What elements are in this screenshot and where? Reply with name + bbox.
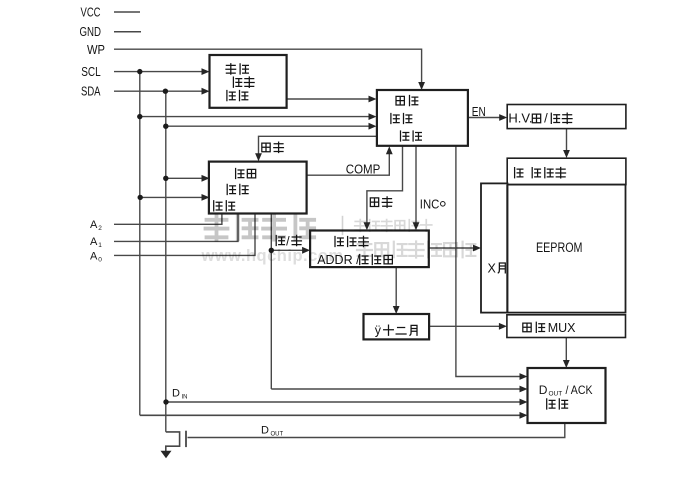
wire EN serial control to HV pump bbox=[468, 117, 501, 119]
svg-text:GND: GND bbox=[80, 25, 102, 39]
device address text bbox=[236, 168, 244, 178]
wire SCL branch to device address bbox=[140, 196, 203, 198]
svg-text:A: A bbox=[90, 251, 98, 263]
svg-text:H.V.: H.V. bbox=[508, 111, 532, 126]
serial mux text bbox=[523, 323, 531, 332]
svg-text:1: 1 bbox=[98, 242, 102, 249]
wire DIN to Dout/ACK bbox=[166, 401, 521, 403]
svg-text:OUT: OUT bbox=[271, 432, 284, 438]
Dout ACK logic box bbox=[528, 368, 606, 423]
serial MUX box bbox=[507, 315, 626, 338]
label load 1 bbox=[262, 143, 270, 152]
watermark bbox=[201, 216, 476, 265]
y dec text bbox=[384, 325, 394, 335]
wire A2 bbox=[114, 214, 222, 225]
svg-text:SCL: SCL bbox=[81, 65, 101, 79]
node SCL-serial junction bbox=[137, 114, 142, 119]
svg-text:X: X bbox=[488, 262, 497, 276]
transistor output MOSFET bbox=[166, 432, 180, 452]
wire serial control down to Dout/ACK bbox=[456, 146, 521, 377]
ground arrow bbox=[161, 451, 172, 459]
Y decoder box bbox=[364, 314, 430, 339]
wire GND stub bbox=[114, 31, 141, 33]
svg-text:EEPROM: EEPROM bbox=[536, 240, 583, 255]
svg-text:IN: IN bbox=[182, 395, 188, 401]
node SCL junction bbox=[137, 69, 142, 74]
wire WP to serial control top bbox=[114, 49, 422, 84]
svg-text:D: D bbox=[539, 383, 548, 397]
svg-text:/: / bbox=[544, 111, 548, 126]
node SCL-devaddr junction bbox=[138, 195, 143, 200]
wire SDA into start/stop bbox=[114, 90, 203, 92]
wire VCC stub bbox=[114, 11, 140, 13]
wire Y dec to serial mux bbox=[429, 325, 500, 327]
data recovery box bbox=[507, 158, 626, 184]
start stop text line1 bbox=[226, 64, 236, 74]
data word addr counter box bbox=[310, 231, 429, 268]
wire SCL branch to serial control bbox=[140, 116, 370, 118]
svg-text:SDA: SDA bbox=[81, 85, 101, 99]
wire data word addr to X dec bbox=[429, 247, 475, 249]
wire INC serial control to data word addr bbox=[415, 146, 417, 224]
svg-text:WP: WP bbox=[87, 43, 105, 57]
wire SCL vertical rail bbox=[139, 72, 141, 416]
node DIN junction bbox=[163, 399, 168, 404]
wire load serial control to data word addr bbox=[367, 146, 403, 224]
wire HV pump to data recovery bbox=[566, 129, 568, 152]
wire SDA vertical rail bbox=[165, 91, 167, 432]
wire A1 bbox=[114, 214, 238, 242]
wire SCL rail bottom to Dout/ACK bbox=[140, 414, 521, 416]
wire data word addr to Y dec bbox=[395, 267, 397, 308]
wire DOUT from Dout/ACK to transistor gate bbox=[188, 423, 565, 438]
data word text bbox=[335, 236, 343, 246]
wire load out of serial control to device address bbox=[259, 136, 377, 155]
serial control logic box bbox=[377, 90, 468, 146]
HV pump timing box bbox=[507, 105, 626, 129]
wire COMP from device address to serial control bbox=[307, 152, 390, 175]
svg-text:www.hqchip.com: www.hqchip.com bbox=[201, 247, 344, 265]
svg-text:A: A bbox=[90, 219, 98, 231]
node RW junction bbox=[269, 248, 274, 253]
serial control text bbox=[396, 96, 404, 105]
wire SDA branch to device address bbox=[166, 177, 203, 179]
label read/write bbox=[276, 235, 284, 245]
label load 2 bbox=[370, 198, 378, 207]
EEPROM box bbox=[507, 185, 626, 313]
wire R/W from device address down bbox=[270, 214, 272, 390]
start stop logic box bbox=[210, 55, 287, 108]
wire R/W to Dout/ACK bbox=[271, 388, 521, 390]
svg-text:0: 0 bbox=[98, 257, 102, 264]
svg-text:/ ACK: / ACK bbox=[566, 383, 593, 397]
svg-text:D: D bbox=[172, 388, 180, 400]
svg-text:2: 2 bbox=[98, 225, 102, 232]
X decoder box bbox=[481, 183, 508, 312]
svg-text:D: D bbox=[261, 425, 269, 437]
node SDA junction bbox=[163, 89, 168, 94]
svg-text:COMP: COMP bbox=[346, 163, 381, 177]
data recovery text bbox=[515, 168, 523, 178]
node SDA-serial junction bbox=[163, 124, 168, 129]
svg-text:EN: EN bbox=[472, 105, 486, 119]
hv pump text bbox=[532, 114, 540, 123]
node SDA-devaddr junction bbox=[163, 176, 168, 181]
svg-text:VCC: VCC bbox=[81, 6, 101, 20]
wire A0 bbox=[114, 214, 255, 256]
wire R/W to data word addr bbox=[271, 249, 303, 251]
device address compare box bbox=[209, 162, 307, 214]
svg-text:ÿ: ÿ bbox=[375, 324, 382, 338]
svg-text:A: A bbox=[90, 236, 98, 248]
svg-text:MUX: MUX bbox=[548, 321, 576, 335]
wire SDA branch to serial control bbox=[166, 125, 370, 127]
wire start/stop to serial control bbox=[287, 98, 370, 100]
svg-text:INC: INC bbox=[420, 198, 440, 212]
svg-text:OUT: OUT bbox=[549, 391, 563, 398]
wire SCL into start/stop bbox=[114, 71, 203, 73]
wire serial mux to Dout/ACK bbox=[565, 338, 567, 363]
